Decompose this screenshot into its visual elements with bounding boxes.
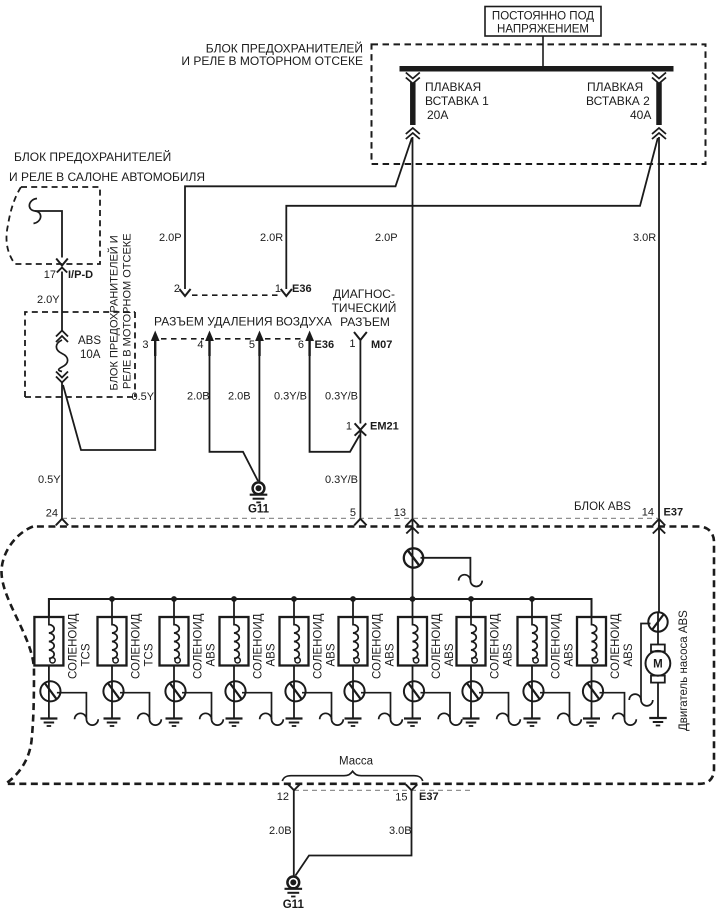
wire from B+ box to bus bar bbox=[542, 36, 544, 66]
connector pin 17 I/P-D bbox=[56, 259, 68, 266]
svg-text:12: 12 bbox=[277, 791, 289, 803]
svg-text:40А: 40А bbox=[630, 108, 651, 122]
fuse F1 top clips bbox=[406, 73, 420, 79]
svg-text:Масса: Масса bbox=[339, 756, 374, 768]
wire 2.0P from fuse F1 down to pin 13 bbox=[412, 137, 414, 549]
connector E37 pin 14 bbox=[653, 519, 665, 526]
svg-text:2.0B: 2.0B bbox=[228, 391, 251, 403]
wire 2.0P from fuse F1 to pin 2 bbox=[185, 138, 412, 289]
svg-text:3.0R: 3.0R bbox=[633, 232, 656, 244]
svg-text:ABS: ABS bbox=[623, 643, 635, 666]
transistor Q1 bbox=[40, 681, 60, 701]
wire L10 to Q10 bbox=[591, 666, 593, 682]
svg-text:2.0R: 2.0R bbox=[260, 232, 283, 244]
node B+: constant voltage label box bbox=[485, 7, 601, 37]
Q9 emitter wire bbox=[531, 701, 533, 718]
wire motor to ground bbox=[657, 683, 659, 718]
svg-text:СОЛЕНОИД: СОЛЕНОИД bbox=[313, 613, 325, 679]
connector EM21 pin 1 bbox=[355, 423, 367, 430]
svg-text:10А: 10А bbox=[80, 349, 101, 361]
connector E37 gray link line (bottom) bbox=[294, 789, 472, 791]
connector E37 pin 24 bbox=[56, 519, 68, 526]
fusible link 1 body bbox=[410, 83, 416, 126]
solenoid L2 (TCS) bbox=[111, 599, 113, 617]
Q6 emitter wire bbox=[352, 701, 354, 718]
transistor Q0 (pump relay driver) bbox=[404, 548, 423, 567]
Q7 base wire to ECU squiggle bbox=[421, 693, 451, 720]
wire L1 to Q1 bbox=[48, 666, 50, 682]
svg-text:G11: G11 bbox=[248, 504, 270, 516]
transistor Q6 bbox=[344, 681, 364, 701]
svg-text:0.3Y/B: 0.3Y/B bbox=[325, 391, 358, 403]
connector E36 bleed pin 6 arrow bbox=[308, 337, 310, 356]
svg-text:И РЕЛЕ В САЛОНЕ АВТОМОБИЛЯ: И РЕЛЕ В САЛОНЕ АВТОМОБИЛЯ bbox=[9, 170, 205, 184]
transistor Q4 bbox=[225, 681, 245, 701]
svg-text:РЕЛЕ В МОТОРНОМ ОТСЕКЕ: РЕЛЕ В МОТОРНОМ ОТСЕКЕ bbox=[122, 233, 134, 389]
ABS block boundary (dashed) bbox=[1, 527, 714, 784]
ground (channel 4) bbox=[226, 717, 243, 719]
svg-text:БЛОК ПРЕДОХРАНИТЕЛЕЙ: БЛОК ПРЕДОХРАНИТЕЛЕЙ bbox=[14, 149, 171, 164]
svg-text:ПЛАВКАЯ: ПЛАВКАЯ bbox=[587, 80, 643, 94]
svg-text:СОЛЕНОИД: СОЛЕНОИД bbox=[193, 613, 205, 679]
motor M (ABS pump) bbox=[651, 645, 665, 652]
wire 2.0R from fuse F2 to pin 1 bbox=[286, 138, 658, 289]
fuse F1 bottom clips bbox=[406, 128, 420, 134]
transistor Q8 bbox=[462, 681, 482, 701]
svg-text:Е36: Е36 bbox=[315, 339, 335, 351]
svg-text:ВСТАВКА 1: ВСТАВКА 1 bbox=[425, 94, 489, 108]
svg-text:1: 1 bbox=[349, 338, 355, 350]
Q1 base wire to ECU squiggle bbox=[57, 693, 87, 720]
fuse F2 top clips bbox=[652, 73, 666, 79]
solenoid L4 (ABS) bbox=[233, 599, 235, 617]
svg-text:5: 5 bbox=[350, 507, 356, 519]
bus bar bbox=[400, 66, 674, 72]
svg-text:РАЗЪЕМ УДАЛЕНИЯ ВОЗДУХА: РАЗЪЕМ УДАЛЕНИЯ ВОЗДУХА bbox=[154, 315, 332, 329]
svg-text:СОЛЕНОИД: СОЛЕНОИД bbox=[131, 613, 143, 679]
svg-text:Е36: Е36 bbox=[292, 283, 312, 295]
svg-text:1: 1 bbox=[346, 421, 352, 433]
svg-text:М: М bbox=[653, 659, 663, 671]
svg-text:ABS: ABS bbox=[326, 643, 338, 666]
wire stub squiggle inside cabin box bbox=[29, 199, 40, 224]
svg-text:2.0P: 2.0P bbox=[159, 232, 182, 244]
solenoid L1 (TCS) bbox=[48, 599, 50, 617]
svg-text:ABS: ABS bbox=[564, 643, 576, 666]
svg-text:ТИЧЕСКИЙ: ТИЧЕСКИЙ bbox=[332, 300, 397, 315]
ground (pump motor) bbox=[649, 717, 667, 719]
Q8 emitter wire bbox=[470, 701, 472, 718]
wire L6 to Q6 bbox=[352, 666, 354, 682]
svg-text:2.0B: 2.0B bbox=[269, 825, 292, 837]
wire 2.0B pin5 to ground G11 bbox=[258, 356, 260, 482]
svg-text:13: 13 bbox=[394, 507, 406, 519]
transistor Q5 bbox=[285, 681, 305, 701]
svg-text:4: 4 bbox=[197, 339, 203, 351]
svg-text:TCS: TCS bbox=[80, 643, 92, 666]
wire 2.0Y bbox=[61, 272, 63, 331]
ground G11 (middle) bbox=[253, 482, 265, 494]
svg-text:0.3Y/B: 0.3Y/B bbox=[325, 474, 358, 486]
svg-text:2.0B: 2.0B bbox=[187, 391, 210, 403]
connector E37 pin 12 bbox=[288, 784, 300, 790]
svg-text:15: 15 bbox=[395, 792, 407, 804]
svg-text:СОЛЕНОИД: СОЛЕНОИД bbox=[372, 613, 384, 679]
fuse F2 bottom clips bbox=[652, 128, 666, 134]
bus junction at x=294 bbox=[291, 596, 297, 602]
svg-text:ABS: ABS bbox=[444, 643, 456, 666]
wire Q0 emitter to solenoid bus bbox=[412, 568, 414, 599]
ground (channel 9) bbox=[524, 717, 541, 719]
svg-text:2.0P: 2.0P bbox=[375, 232, 398, 244]
connector E37 pin 15 bbox=[406, 784, 418, 790]
ground (channel 6) bbox=[345, 717, 362, 719]
Q10 base wire to ECU squiggle bbox=[600, 693, 625, 720]
ground (channel 1) bbox=[40, 717, 57, 719]
Q2 base wire to ECU squiggle bbox=[120, 693, 150, 720]
svg-text:3: 3 bbox=[142, 339, 148, 351]
svg-text:Двигатель насоса ABS: Двигатель насоса ABS bbox=[678, 610, 690, 731]
transistor Q10 bbox=[583, 681, 603, 701]
svg-text:СОЛЕНОИД: СОЛЕНОИД bbox=[67, 613, 79, 679]
svg-text:Е37: Е37 bbox=[664, 507, 684, 519]
Q8 base wire to ECU squiggle bbox=[479, 693, 509, 720]
transistor Q3 bbox=[165, 681, 185, 701]
brace over ground pins bbox=[282, 771, 422, 781]
svg-text:2.0Y: 2.0Y bbox=[37, 294, 60, 306]
Q11 base wire to ECU squiggle bbox=[641, 624, 651, 701]
Q7 emitter wire bbox=[412, 701, 414, 718]
svg-text:14: 14 bbox=[642, 507, 654, 519]
bus junction at x=112 bbox=[109, 596, 115, 602]
wire 0.5Y down to pin 24 bbox=[61, 382, 63, 519]
svg-text:Е37: Е37 bbox=[419, 791, 439, 803]
wire Q11 to motor bbox=[657, 632, 659, 645]
Q5 emitter wire bbox=[293, 701, 295, 718]
svg-text:ВСТАВКА 2: ВСТАВКА 2 bbox=[586, 94, 650, 108]
wire from squiggle to pin 17 bbox=[35, 211, 62, 258]
connector E36 pin 2 bbox=[179, 289, 190, 296]
Q4 emitter wire bbox=[233, 701, 235, 718]
solenoid L10 (ABS) bbox=[591, 599, 593, 617]
svg-text:СОЛЕНОИД: СОЛЕНОИД bbox=[551, 613, 563, 679]
transistor Q11 (pump motor driver) bbox=[648, 612, 667, 631]
svg-text:СОЛЕНОИД: СОЛЕНОИД bbox=[431, 613, 443, 679]
svg-text:М07: М07 bbox=[371, 339, 392, 351]
connector E37 pin 13 bbox=[406, 519, 418, 526]
connector E37 gray link line bbox=[62, 517, 659, 519]
svg-text:ABS: ABS bbox=[206, 643, 218, 666]
solenoid L5 (ABS) bbox=[293, 599, 295, 617]
wire L4 to Q4 bbox=[233, 666, 235, 682]
bus junction at x=532 bbox=[529, 596, 535, 602]
svg-text:ЕМ21: ЕМ21 bbox=[370, 421, 399, 433]
svg-text:TCS: TCS bbox=[144, 643, 156, 666]
svg-text:НАПРЯЖЕНИЕМ: НАПРЯЖЕНИЕМ bbox=[497, 24, 589, 36]
wire 3.0R from fuse F2 down to pin 14 bbox=[658, 137, 660, 613]
wire L2 to Q2 bbox=[111, 666, 113, 682]
solenoid L6 (ABS) bbox=[352, 599, 354, 617]
ground (channel 7) bbox=[404, 717, 421, 719]
connector E36 pin 1 bbox=[281, 289, 292, 296]
fuse ABS 10A bbox=[56, 331, 68, 337]
svg-text:ABS: ABS bbox=[503, 643, 515, 666]
bus junction at x=234 bbox=[231, 596, 237, 602]
fusible link 2 body bbox=[656, 83, 662, 126]
connector E37 pin 5 bbox=[354, 519, 366, 526]
svg-text:24: 24 bbox=[46, 508, 58, 520]
bus junction at x=353 bbox=[350, 596, 356, 602]
connector E36 bleed pin 3 arrow bbox=[154, 337, 156, 356]
wire L9 to Q9 bbox=[531, 666, 533, 682]
engine-bay fuse box (dashed) bbox=[372, 44, 706, 164]
svg-text:5: 5 bbox=[249, 339, 255, 351]
svg-text:0.5Y: 0.5Y bbox=[132, 391, 155, 403]
svg-text:17: 17 bbox=[44, 269, 56, 281]
Q5 base wire to ECU squiggle bbox=[302, 693, 332, 720]
svg-text:3.0B: 3.0B bbox=[389, 825, 412, 837]
svg-text:СОЛЕНОИД: СОЛЕНОИД bbox=[490, 613, 502, 679]
transistor Q7 bbox=[404, 681, 424, 701]
svg-text:ДИАГНОС-: ДИАГНОС- bbox=[333, 287, 395, 301]
svg-text:G11: G11 bbox=[283, 899, 305, 911]
wire L3 to Q3 bbox=[173, 666, 175, 682]
wire 0.3Y/B pin6 to EM21 joint bbox=[310, 356, 360, 452]
wire L7 to Q7 bbox=[412, 666, 414, 682]
Q3 emitter wire bbox=[173, 701, 175, 718]
svg-text:БЛОК ПРЕДОХРАНИТЕЛЕЙ И: БЛОК ПРЕДОХРАНИТЕЛЕЙ И bbox=[108, 235, 121, 390]
engine-bay fuse box lower (dashed) bbox=[25, 312, 135, 397]
ground (channel 3) bbox=[166, 717, 183, 719]
Q1 emitter wire bbox=[48, 701, 50, 718]
bleed connector dashed link bbox=[161, 338, 204, 340]
svg-text:СОЛЕНОИД: СОЛЕНОИД bbox=[610, 613, 622, 679]
solenoid L7 (ABS) bbox=[412, 599, 414, 617]
svg-text:СОЛЕНОИД: СОЛЕНОИД bbox=[253, 613, 265, 679]
wire L5 to Q5 bbox=[293, 666, 295, 682]
solenoid L9 (ABS) bbox=[531, 599, 533, 617]
wire 2.0B pin4 to ground G11 bbox=[210, 356, 259, 481]
svg-text:ABS: ABS bbox=[78, 335, 101, 347]
Q6 base wire to ECU squiggle bbox=[361, 693, 391, 720]
Q9 base wire to ECU squiggle bbox=[540, 693, 570, 720]
ground (channel 5) bbox=[286, 717, 303, 719]
solenoid L3 (ABS) bbox=[173, 599, 175, 617]
ground (channel 10) bbox=[583, 717, 600, 719]
Q3 base wire to ECU squiggle bbox=[182, 693, 212, 720]
ground (channel 2) bbox=[104, 717, 121, 719]
transistor Q9 bbox=[523, 681, 543, 701]
wire 0.3Y/B EM21 down to pin 5 bbox=[359, 430, 361, 519]
svg-text:0.3Y/B: 0.3Y/B bbox=[274, 391, 307, 403]
wire L8 to Q8 bbox=[470, 666, 472, 682]
Q2 emitter wire bbox=[111, 701, 113, 718]
svg-text:И РЕЛЕ В МОТОРНОМ ОТСЕКЕ: И РЕЛЕ В МОТОРНОМ ОТСЕКЕ bbox=[181, 54, 363, 68]
wire 0.3Y/B M07 to EM21 bbox=[359, 356, 361, 424]
ground G11 (bottom) bbox=[287, 877, 299, 889]
wire 3.0B pin 15 to ground G11 bbox=[296, 790, 412, 875]
svg-text:I/P-D: I/P-D bbox=[68, 269, 93, 281]
Q10 emitter wire bbox=[591, 701, 593, 718]
ground (channel 8) bbox=[463, 717, 480, 719]
bus junction at x=471 bbox=[468, 596, 474, 602]
svg-text:2: 2 bbox=[174, 283, 180, 295]
svg-text:20А: 20А bbox=[427, 108, 448, 122]
connector E36 bleed pin 5 arrow bbox=[258, 337, 260, 356]
svg-text:1: 1 bbox=[275, 283, 281, 295]
svg-text:ПОСТОЯННО ПОД: ПОСТОЯННО ПОД bbox=[492, 11, 594, 23]
connector M07 pin 1 bbox=[354, 332, 367, 340]
bus junction at x=412.5 bbox=[410, 596, 416, 602]
Q4 base wire to ECU squiggle bbox=[242, 693, 272, 720]
transistor Q2 bbox=[103, 681, 123, 701]
svg-text:ABS: ABS bbox=[385, 643, 397, 666]
svg-text:0.5Y: 0.5Y bbox=[38, 474, 61, 486]
svg-text:ABS: ABS bbox=[266, 643, 278, 666]
bus junction at x=174 bbox=[171, 596, 177, 602]
Q0 base wire to ECU squiggle bbox=[421, 558, 471, 581]
branch wire from fuse to bleed pin 3 bbox=[63, 352, 155, 450]
svg-text:ПЛАВКАЯ: ПЛАВКАЯ bbox=[425, 80, 481, 94]
connector E36 dashed link bbox=[192, 294, 280, 296]
connector E36 bleed pin 4 arrow bbox=[208, 337, 210, 356]
solenoid supply bus bbox=[49, 599, 592, 617]
cabin fuse box (dashed, curvy left) bbox=[6, 187, 100, 264]
svg-text:РАЗЪЕМ: РАЗЪЕМ bbox=[340, 315, 390, 329]
solenoid L8 (ABS) bbox=[470, 599, 472, 617]
svg-text:6: 6 bbox=[298, 339, 304, 351]
wire 2.0B pin 12 to ground G11 bbox=[293, 790, 295, 876]
svg-text:БЛОК ABS: БЛОК ABS bbox=[574, 501, 631, 513]
